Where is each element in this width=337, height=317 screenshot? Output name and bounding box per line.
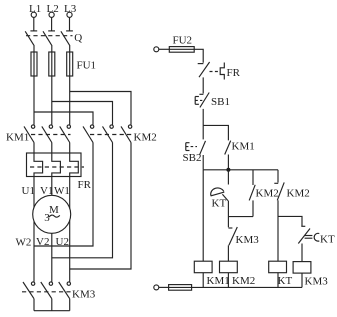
- wire KM1 pole1 to FR: [33, 143, 35, 154]
- svg-text:KT: KT: [212, 198, 227, 210]
- svg-text:M: M: [49, 204, 59, 216]
- wire junction to KT contact: [227, 170, 229, 185]
- node control N terminal: [154, 285, 159, 290]
- contact FR normally-closed: [198, 62, 210, 77]
- switch Q pole 3: [61, 31, 73, 46]
- wire FR to motor V1: [51, 177, 53, 196]
- contactor KM3 linkage dashed: [22, 291, 71, 293]
- thermal relay FR heater 1: [34, 153, 43, 177]
- wire FU2 to FR contact: [194, 49, 203, 63]
- wire tee down to SB2: [202, 125, 204, 139]
- wire KM1 pole2 to FR: [51, 143, 53, 154]
- wire L1 to Q: [33, 17, 35, 31]
- contactor KM1 linkage dashed: [31, 134, 71, 136]
- node L1 terminal: [29, 3, 41, 17]
- wire tap phase3 to KM2 pole3: [70, 92, 131, 125]
- wire KM3 coil to bus: [301, 273, 303, 287]
- contact KM3 interlock normally-closed: [228, 227, 237, 245]
- switch Q pole 1: [25, 31, 37, 46]
- button SB2 start normally-open: [186, 141, 206, 155]
- coil KT: [269, 261, 287, 273]
- switch Q pole 2: [43, 31, 55, 46]
- motor M circle: [33, 195, 71, 233]
- svg-text:Q: Q: [74, 32, 82, 44]
- wire motor W2 down to KM3: [33, 221, 35, 282]
- svg-text:W2: W2: [16, 236, 32, 248]
- svg-text:SB1: SB1: [211, 96, 230, 108]
- wire KM2 coil to bus: [227, 273, 229, 288]
- svg-text:L2: L2: [47, 3, 59, 15]
- coil KM1: [194, 261, 212, 273]
- wire SB1 to tee node: [202, 109, 204, 126]
- svg-text:KM2: KM2: [287, 188, 310, 200]
- contactor KM2 main contact 2: [103, 125, 114, 143]
- wire tap phase2 to KM2 pole2: [52, 102, 113, 125]
- fuse FU1 element 3: [67, 52, 73, 76]
- wire KT coil to bus: [277, 273, 279, 288]
- svg-text:KT: KT: [320, 234, 335, 246]
- node L3 terminal: [64, 3, 77, 17]
- wire phase2 FU1 to KM1: [51, 76, 53, 125]
- wire tap phase1 to KM2 pole1: [34, 112, 93, 125]
- wire terminal to bottom fuse: [159, 286, 169, 288]
- wire terminal to FU2: [159, 48, 170, 50]
- wire KM3 pole3 to star bar: [69, 299, 71, 311]
- svg-text:W1: W1: [54, 185, 70, 197]
- contact KT delayed-close normally-open: [211, 188, 228, 201]
- svg-text:KM3: KM3: [305, 276, 329, 288]
- svg-text:U1: U1: [22, 185, 35, 197]
- wire KM1 coil to bus: [202, 273, 204, 288]
- svg-text:FU1: FU1: [77, 60, 97, 72]
- contactor KM1 main contact 1: [24, 125, 35, 143]
- fuse FU2 lower: [169, 285, 192, 291]
- contactor KM3 main contact 3: [59, 282, 71, 299]
- contactor KM2 main contact 1: [83, 125, 94, 143]
- fuse FU2: [169, 47, 194, 53]
- wire KT delayed contact to KM3 coil: [301, 244, 303, 262]
- wire KT bottom to KM2-NO bottom: [228, 216, 253, 218]
- contactor KM2 main contact 3: [121, 125, 132, 143]
- wire KM1 pole3 to FR: [69, 143, 71, 154]
- button SB1 stop normally-closed: [195, 93, 209, 108]
- contact KT delayed-open normally-closed: [298, 226, 319, 243]
- thermal relay FR heater 2: [52, 153, 61, 177]
- thermal relay FR box: [27, 153, 82, 177]
- svg-text:KM2: KM2: [134, 132, 157, 144]
- svg-text:KM1: KM1: [232, 141, 255, 153]
- wire FR contact to SB1: [202, 77, 204, 93]
- wire junction line: [203, 169, 278, 171]
- wire phase3 FU1 to KM1: [69, 76, 71, 125]
- svg-text:KM3: KM3: [72, 289, 96, 301]
- svg-text:L3: L3: [64, 3, 77, 15]
- svg-text:FU2: FU2: [173, 35, 193, 47]
- coil KM3: [293, 262, 311, 274]
- svg-text:FR: FR: [78, 179, 92, 191]
- wire KM3 pole2 to star bar: [51, 299, 53, 311]
- wire KM1 contact to junction: [227, 155, 229, 170]
- wire SB2 to junction line: [202, 155, 204, 170]
- svg-text:FR: FR: [227, 67, 241, 79]
- wire motor U2 down to KM3: [69, 220, 71, 282]
- wire KM2 pole1 down and across to W2: [34, 143, 93, 247]
- contact KM2 auxiliary normally-open: [249, 170, 255, 217]
- wire KM3 pole1 to star bar: [33, 299, 35, 311]
- svg-text:KM2: KM2: [232, 275, 255, 287]
- switch Q linkage dashed: [26, 35, 73, 37]
- wire L2 to Q: [51, 17, 53, 31]
- wire motor V2 down to KM3: [51, 233, 53, 282]
- svg-text:3: 3: [44, 212, 50, 224]
- wire KM2 interlock to KT coil: [277, 200, 279, 261]
- contactor KM1 main contact 2: [42, 125, 53, 143]
- wire tap to KT delayed contact: [278, 216, 302, 226]
- node control L terminal: [154, 47, 159, 52]
- wire FR to motor W1: [69, 177, 71, 209]
- star point bar: [34, 310, 70, 312]
- svg-text:KM1: KM1: [6, 132, 29, 144]
- wire KM2 pole3 down and across to U2: [70, 143, 131, 270]
- contactor KM1 main contact 3: [60, 125, 71, 143]
- wire KM3 interlock to KM2 coil: [227, 245, 229, 261]
- wire Q pole2 to FU1: [51, 46, 53, 52]
- coil KM2: [220, 261, 238, 273]
- thermal relay FR heater 3: [70, 153, 79, 177]
- junction dot: [226, 168, 230, 172]
- wire KM2 pole2 down and across to V2: [52, 143, 113, 258]
- contactor KM2 linkage dashed: [90, 134, 133, 136]
- wire KT contact down: [227, 201, 229, 228]
- wire phase1 FU1 to KM1: [33, 76, 35, 125]
- contact KM1 auxiliary normally-open: [225, 141, 231, 155]
- contactor KM3 main contact 2: [41, 282, 53, 299]
- svg-text:KT: KT: [278, 275, 293, 287]
- wire main column to KM1 coil: [202, 170, 204, 261]
- FR trip element: [220, 63, 224, 80]
- wire L3 to Q: [69, 17, 71, 31]
- wire FR to motor U1: [33, 177, 35, 208]
- contact KM2 interlock normally-closed: [274, 170, 284, 201]
- fuse FU1 element 2: [49, 52, 55, 76]
- thermal relay FR linkage dashed: [30, 166, 84, 168]
- svg-text:KM3: KM3: [236, 234, 260, 246]
- contactor KM3 main contact 1: [23, 282, 35, 299]
- FR trip linkage dashed: [210, 71, 220, 73]
- wire bottom bus: [192, 286, 302, 288]
- svg-text:KM2: KM2: [256, 188, 279, 200]
- wire tee to KM1 branch: [203, 125, 228, 140]
- fuse FU1 element 1: [31, 52, 37, 76]
- node L2 terminal: [47, 3, 59, 17]
- wire Q pole3 to FU1: [69, 46, 71, 52]
- svg-text:KM1: KM1: [207, 275, 230, 287]
- wire Q pole1 to FU1: [33, 46, 35, 52]
- svg-text:SB2: SB2: [183, 152, 202, 164]
